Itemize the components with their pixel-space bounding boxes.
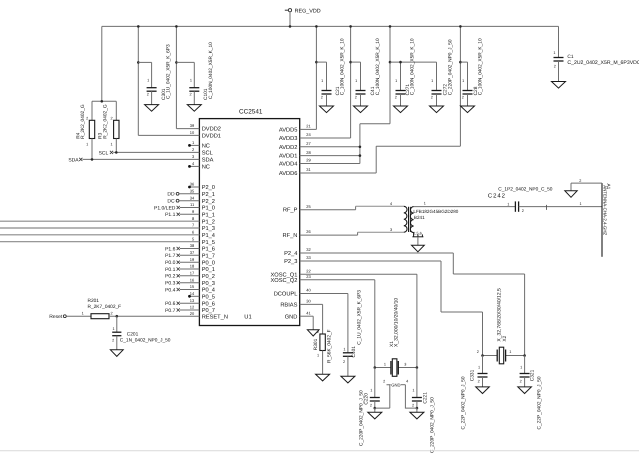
svg-text:U1: U1	[244, 314, 251, 320]
svg-text:XOSC_Q2: XOSC_Q2	[271, 278, 298, 284]
svg-text:C331: C331	[470, 369, 476, 381]
svg-text:2: 2	[431, 95, 433, 99]
svg-text:29: 29	[306, 158, 311, 163]
svg-text:AVDD1: AVDD1	[279, 154, 298, 160]
svg-text:X_32,000/10/20/40/10: X_32,000/10/20/40/10	[394, 298, 400, 347]
svg-text:P1_2: P1_2	[202, 219, 215, 225]
svg-text:2: 2	[343, 360, 345, 364]
svg-text:C_1P2_0402_NP0_C_50: C_1P2_0402_NP0_C_50	[498, 186, 552, 192]
svg-text:R301: R301	[313, 338, 319, 350]
svg-text:R201: R201	[88, 298, 100, 304]
svg-text:P0_2: P0_2	[202, 274, 215, 280]
svg-text:P2_0: P2_0	[202, 185, 215, 191]
svg-text:2: 2	[554, 65, 556, 69]
svg-text:AVDD4: AVDD4	[279, 162, 298, 168]
svg-text:RF_P: RF_P	[283, 208, 298, 214]
svg-text:2: 2	[110, 117, 112, 121]
svg-text:DCOUPL: DCOUPL	[274, 292, 298, 298]
svg-text:P1_0: P1_0	[202, 206, 215, 212]
svg-text:P1_4: P1_4	[202, 233, 215, 239]
svg-text:35: 35	[190, 188, 195, 193]
svg-text:2: 2	[579, 179, 581, 183]
svg-text:NC: NC	[202, 165, 210, 171]
svg-text:SDA: SDA	[202, 158, 214, 164]
svg-text:P0_0: P0_0	[202, 260, 215, 266]
svg-text:A1: A1	[605, 184, 611, 190]
svg-text:LFB182G45BG2D280: LFB182G45BG2D280	[413, 209, 458, 214]
svg-text:1: 1	[412, 388, 414, 392]
svg-text:2: 2	[110, 311, 112, 315]
svg-text:C_100N_0402_X5R_K_10: C_100N_0402_X5R_K_10	[375, 38, 381, 95]
svg-text:P1.1: P1.1	[165, 212, 176, 218]
svg-text:23: 23	[306, 274, 311, 279]
svg-text:P2_2: P2_2	[202, 199, 215, 205]
svg-text:27: 27	[306, 141, 311, 146]
svg-text:P0_6: P0_6	[202, 301, 215, 307]
svg-text:ANTENNA-CHA-2,4-GHZ: ANTENNA-CHA-2,4-GHZ	[602, 185, 607, 235]
svg-text:RESET_N: RESET_N	[202, 314, 228, 320]
svg-text:Reset: Reset	[49, 314, 63, 320]
svg-text:34: 34	[190, 195, 195, 200]
svg-text:1: 1	[343, 348, 345, 352]
svg-text:C_100N_0402_X5R_K_10: C_100N_0402_X5R_K_10	[340, 38, 346, 95]
svg-text:31: 31	[306, 167, 311, 172]
svg-text:1: 1	[321, 79, 323, 83]
svg-text:R_2K7_0402_F: R_2K7_0402_F	[88, 304, 122, 310]
svg-text:B241: B241	[414, 215, 425, 220]
svg-text:P0_5: P0_5	[202, 294, 215, 300]
svg-text:2: 2	[112, 339, 114, 343]
svg-text:1: 1	[478, 366, 480, 370]
svg-text:P0.6: P0.6	[165, 301, 176, 307]
svg-text:C221: C221	[423, 392, 429, 404]
svg-text:1: 1	[462, 79, 464, 83]
svg-text:P0.3: P0.3	[165, 281, 176, 287]
svg-text:C_1U_0402_X5R_K_6P3: C_1U_0402_X5R_K_6P3	[166, 44, 172, 99]
svg-text:AVDD6: AVDD6	[279, 171, 298, 177]
svg-text:17: 17	[190, 270, 195, 275]
svg-text:2: 2	[189, 93, 191, 97]
svg-text:P0_1: P0_1	[202, 267, 215, 273]
svg-text:R_2K2_0402_G: R_2K2_0402_G	[80, 104, 86, 139]
svg-text:DD: DD	[167, 192, 175, 198]
svg-text:32: 32	[306, 247, 311, 252]
svg-text:36: 36	[190, 182, 195, 187]
svg-text:21: 21	[306, 124, 311, 129]
svg-text:1: 1	[579, 202, 581, 206]
svg-text:C_220P_0402_NP0_J_50: C_220P_0402_NP0_J_50	[359, 390, 365, 446]
svg-text:P0.2: P0.2	[165, 274, 176, 280]
svg-text:37: 37	[190, 250, 195, 255]
svg-text:AVDD3: AVDD3	[279, 136, 298, 142]
svg-text:2: 2	[370, 403, 372, 407]
svg-text:P0_4: P0_4	[202, 288, 215, 294]
svg-text:C_100N_0402_X5R_K_10: C_100N_0402_X5R_K_10	[208, 42, 214, 99]
svg-text:2: 2	[412, 403, 414, 407]
svg-text:1: 1	[424, 202, 426, 206]
svg-text:1: 1	[110, 142, 112, 146]
svg-text:X2: X2	[502, 335, 508, 341]
svg-text:10: 10	[190, 130, 195, 135]
svg-text:C_22P_0402_NP0_J_50: C_22P_0402_NP0_J_50	[460, 376, 466, 429]
svg-text:20: 20	[190, 311, 195, 316]
svg-text:26: 26	[306, 229, 311, 234]
svg-text:AVDD5: AVDD5	[279, 128, 298, 134]
svg-text:1: 1	[190, 79, 192, 83]
svg-text:C321: C321	[530, 369, 536, 381]
svg-text:C_220P_0402_NP0_J_50: C_220P_0402_NP0_J_50	[429, 397, 435, 453]
svg-text:2: 2	[462, 95, 464, 99]
svg-text:P2_4: P2_4	[284, 251, 297, 257]
svg-text:12: 12	[190, 305, 195, 310]
svg-text:P0_7: P0_7	[202, 308, 215, 314]
svg-text:1: 1	[507, 202, 509, 206]
svg-text:C401: C401	[351, 346, 357, 358]
svg-text:2: 2	[520, 379, 522, 383]
svg-text:DC: DC	[167, 199, 175, 205]
svg-text:1: 1	[147, 79, 149, 83]
svg-text:18: 18	[190, 264, 195, 269]
svg-text:4: 4	[390, 202, 392, 206]
svg-text:P1_6: P1_6	[202, 247, 215, 253]
svg-text:GND: GND	[391, 382, 400, 387]
svg-text:2: 2	[478, 379, 480, 383]
svg-text:DVDD1: DVDD1	[202, 134, 221, 140]
svg-text:SCL: SCL	[99, 150, 109, 156]
svg-text:1: 1	[112, 327, 114, 331]
svg-text:1: 1	[509, 350, 511, 354]
svg-text:X_32,768/20/30/40/12,5: X_32,768/20/30/40/12,5	[496, 288, 502, 342]
svg-text:22: 22	[306, 268, 311, 273]
svg-text:RBIAS: RBIAS	[280, 303, 297, 309]
svg-text:1: 1	[395, 79, 397, 83]
svg-text:C_220P_0402_NP0_J_50: C_220P_0402_NP0_J_50	[447, 39, 453, 95]
svg-text:REG_VDD: REG_VDD	[295, 8, 321, 14]
svg-text:SDA: SDA	[68, 157, 79, 163]
svg-text:40: 40	[306, 288, 311, 293]
svg-text:2: 2	[147, 93, 149, 97]
svg-text:C242: C242	[488, 192, 506, 199]
svg-text:14: 14	[190, 291, 195, 296]
svg-text:P1_5: P1_5	[202, 240, 215, 246]
svg-text:2: 2	[86, 117, 88, 121]
svg-text:CC2541: CC2541	[239, 108, 263, 115]
svg-text:2: 2	[522, 209, 524, 213]
svg-text:R_2K2_0402_G: R_2K2_0402_G	[103, 104, 109, 139]
svg-text:DVDD2: DVDD2	[202, 127, 221, 133]
svg-text:C_100N_0402_X5R_K_10: C_100N_0402_X5R_K_10	[478, 38, 484, 95]
svg-text:C_22P_0402_NP0_J_50: C_22P_0402_NP0_J_50	[537, 376, 543, 429]
svg-text:1: 1	[431, 79, 433, 83]
svg-text:1: 1	[553, 51, 555, 55]
svg-text:1: 1	[317, 354, 319, 358]
svg-text:19: 19	[190, 257, 195, 262]
svg-text:C_100N_0402_X5R_K_10: C_100N_0402_X5R_K_10	[410, 38, 416, 95]
svg-text:39: 39	[190, 123, 195, 128]
svg-text:2: 2	[383, 379, 385, 383]
svg-text:41: 41	[306, 310, 311, 315]
svg-text:2: 2	[395, 95, 397, 99]
svg-text:C_1N_0402_NP0_J_50: C_1N_0402_NP0_J_50	[120, 338, 171, 344]
svg-text:28: 28	[306, 150, 311, 155]
svg-text:P1_1: P1_1	[202, 212, 215, 218]
svg-text:NC: NC	[202, 144, 210, 150]
svg-text:SCL: SCL	[202, 151, 213, 157]
svg-text:C_1U_0402_X5R_K_6P3: C_1U_0402_X5R_K_6P3	[357, 290, 363, 345]
svg-text:1: 1	[355, 79, 357, 83]
svg-text:1: 1	[520, 366, 522, 370]
svg-text:P1.7: P1.7	[165, 253, 176, 259]
svg-text:R_56K_0402_F: R_56K_0402_F	[327, 329, 333, 363]
svg-text:P1_7: P1_7	[202, 253, 215, 259]
svg-text:P1_3: P1_3	[202, 226, 215, 232]
svg-text:P0.4: P0.4	[165, 287, 176, 293]
svg-text:4: 4	[406, 379, 408, 383]
svg-text:16: 16	[190, 277, 195, 282]
svg-text:3: 3	[390, 228, 392, 232]
svg-text:38: 38	[190, 243, 195, 248]
svg-text:P0.0: P0.0	[165, 260, 176, 266]
svg-text:P2_3: P2_3	[284, 259, 297, 265]
svg-text:24: 24	[306, 132, 311, 137]
svg-text:15: 15	[190, 284, 195, 289]
svg-text:P1.6: P1.6	[165, 246, 176, 252]
svg-text:P0.1: P0.1	[165, 267, 176, 273]
svg-text:25: 25	[306, 204, 311, 209]
svg-text:P0.7: P0.7	[165, 308, 176, 314]
svg-text:1: 1	[86, 142, 88, 146]
svg-text:1: 1	[82, 311, 84, 315]
svg-text:C201: C201	[127, 332, 139, 338]
svg-text:GND: GND	[285, 314, 298, 320]
svg-text:P1.0/LED: P1.0/LED	[154, 205, 176, 211]
svg-text:33: 33	[306, 255, 311, 260]
svg-text:2: 2	[477, 350, 479, 354]
svg-text:AVDD2: AVDD2	[279, 145, 298, 151]
svg-text:P2_1: P2_1	[202, 192, 215, 198]
svg-text:P0_3: P0_3	[202, 281, 215, 287]
svg-text:1: 1	[384, 363, 386, 367]
svg-text:1: 1	[370, 388, 372, 392]
svg-text:RF_N: RF_N	[283, 233, 298, 239]
svg-text:2: 2	[355, 95, 357, 99]
svg-text:2: 2	[321, 95, 323, 99]
svg-text:3: 3	[404, 363, 406, 367]
svg-text:13: 13	[190, 298, 195, 303]
svg-text:C_2U2_0402_X5R_M_6P3VDC: C_2U2_0402_X5R_M_6P3VDC	[567, 60, 639, 66]
svg-text:30: 30	[306, 299, 311, 304]
